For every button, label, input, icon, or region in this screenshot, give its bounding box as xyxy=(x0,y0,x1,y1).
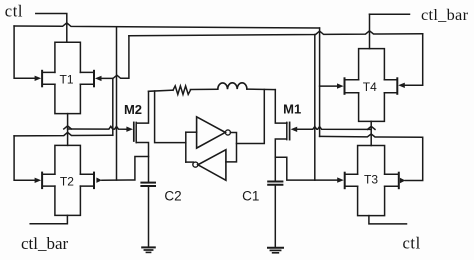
svg-text:M1: M1 xyxy=(283,102,301,117)
svg-text:ctl_bar: ctl_bar xyxy=(421,5,469,24)
svg-text:ctl: ctl xyxy=(403,234,421,253)
svg-text:T2: T2 xyxy=(60,174,74,188)
svg-text:M2: M2 xyxy=(124,102,142,117)
svg-text:C1: C1 xyxy=(242,189,259,204)
svg-text:ctl_bar: ctl_bar xyxy=(21,234,69,253)
svg-text:T1: T1 xyxy=(59,73,73,87)
svg-text:C2: C2 xyxy=(164,188,181,203)
svg-text:T3: T3 xyxy=(364,172,378,186)
svg-text:T4: T4 xyxy=(363,80,377,94)
svg-text:ctl: ctl xyxy=(5,2,23,21)
